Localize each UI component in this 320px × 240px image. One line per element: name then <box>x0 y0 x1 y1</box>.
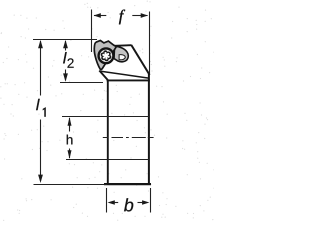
dim l1 label <box>36 99 40 110</box>
clamp lobe white D <box>119 55 125 60</box>
dim h line upper <box>69 118 71 132</box>
dim h up arrow <box>68 117 72 126</box>
dim l1 l2 top extension line <box>33 39 97 41</box>
dim l1 line lower <box>40 120 42 182</box>
dim f left extension line <box>91 10 93 53</box>
centerline <box>103 137 154 139</box>
dim h bottom line <box>66 159 149 161</box>
dim l2 down arrow <box>63 73 68 81</box>
head top edge <box>111 44 132 47</box>
torx screw outer <box>99 48 114 63</box>
dim h top line <box>62 116 149 118</box>
dim f left arrow <box>94 15 106 17</box>
clamp lobe <box>114 46 128 62</box>
dim h down arrow <box>68 150 72 159</box>
dim l2 label <box>63 52 67 63</box>
dim f label <box>119 10 125 25</box>
dim l1 up arrow <box>38 40 43 48</box>
dim f right arrow <box>132 15 147 17</box>
torx screw star white core <box>102 52 109 60</box>
dim h label <box>67 135 73 145</box>
dim b left extension line <box>106 188 108 213</box>
torx screw star dark band <box>101 50 112 61</box>
toolholder head fill <box>96 42 148 80</box>
dim l2 bottom extension line <box>60 82 103 84</box>
dim l1 line upper <box>40 41 42 96</box>
head bottom edge <box>107 79 150 81</box>
insert body <box>94 41 116 70</box>
dim h line lower <box>69 149 71 159</box>
head chamfer edge <box>131 45 149 75</box>
head underside line <box>101 71 149 78</box>
dim l1 down arrow <box>38 175 43 183</box>
dim b label <box>124 198 133 211</box>
shank right edge <box>148 74 150 185</box>
dim l2 up arrow <box>63 40 68 48</box>
shank bottom edge <box>104 183 151 185</box>
dim f right extension line <box>149 12 151 74</box>
dim l2 line upper <box>65 41 67 51</box>
shank left edge <box>107 81 109 185</box>
dim l2 line lower <box>65 70 67 81</box>
dim l1 bottom extension line <box>34 184 108 186</box>
dim b right extension line <box>150 188 152 213</box>
dim b right arrow <box>142 200 149 205</box>
head lower-left edge <box>99 71 108 81</box>
dim b left arrow <box>108 200 115 205</box>
